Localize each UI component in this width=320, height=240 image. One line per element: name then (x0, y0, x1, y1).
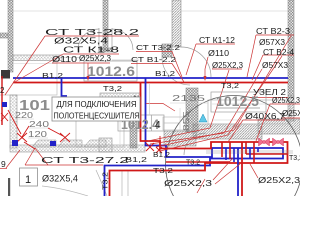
svg-text:Ø25X2,3: Ø25X2,3 (282, 109, 300, 118)
room box 1012.4 (118, 115, 164, 131)
svg-text:1: 1 (25, 174, 31, 186)
insulation triangle marker (199, 114, 207, 122)
svg-text:В1,2: В1,2 (42, 71, 63, 80)
svg-text:Ø25X2,3: Ø25X2,3 (212, 61, 244, 70)
blue fitting towel 2 (50, 141, 56, 146)
shaft wall band middle (193, 124, 262, 139)
wall left end cap (1, 70, 10, 79)
svg-text:Ø57X3: Ø57X3 (259, 38, 286, 47)
svg-text:1012.6: 1012.6 (87, 63, 135, 79)
svg-text:СТ К1-12: СТ К1-12 (199, 36, 236, 45)
leader line to box 1012.6 (112, 59, 139, 61)
door arc bathroom2 (184, 133, 206, 155)
bathroom1 wall vertical x=10 (10, 95, 17, 148)
svg-text:В1,2: В1,2 (125, 155, 147, 164)
svg-text:Ø25X2,3: Ø25X2,3 (258, 175, 300, 185)
bathroom2 wall vertical x=186 (186, 88, 198, 132)
svg-text:В1,2: В1,2 (155, 69, 175, 78)
bathtub room 1012.4 (76, 116, 124, 147)
towel radiator section 1 (32, 140, 56, 147)
bathtub room 1012.5 (208, 100, 290, 124)
room box 1012.6 (84, 61, 137, 81)
svg-text:СТ В1-2.2: СТ В1-2.2 (131, 55, 176, 64)
door frame bottom middle (122, 170, 128, 196)
pipe Т3 riser loop to node (110, 83, 288, 196)
dimension line 855 (179, 108, 181, 132)
shaft wall band left (164, 131, 196, 146)
svg-text:СТ В2-4: СТ В2-4 (263, 48, 295, 57)
ceiling line (13, 10, 288, 12)
detail box 1 (20, 168, 38, 186)
pier below wall B (162, 44, 172, 57)
dimension lines 220/240/120 (15, 119, 50, 138)
svg-text:В1,2: В1,2 (153, 150, 170, 159)
door arc right of wall A (112, 29, 133, 50)
pipe Т3 node vertical to bottom (241, 142, 243, 196)
svg-text:855: 855 (182, 110, 191, 131)
door arc at wall B (181, 47, 211, 77)
partition thin line extension (62, 57, 99, 59)
svg-text:СТ Т3-27.2: СТ Т3-27.2 (41, 155, 130, 165)
svg-text:120: 120 (28, 130, 48, 139)
svg-text:240: 240 (29, 120, 50, 129)
partition room 101 (0, 62, 57, 95)
detail circle УЗЕЛ 2 (166, 96, 303, 233)
pipe В1 node vertical to bottom (237, 148, 239, 196)
bathroom1 pier x=99 (99, 138, 112, 152)
svg-text:СТ В2-3: СТ В2-3 (256, 27, 291, 36)
door arc corridor (162, 57, 190, 85)
valve crosses at riser elbow (146, 136, 162, 153)
leader arrowhead 2 (204, 76, 207, 81)
svg-text:Ø25X2,3: Ø25X2,3 (272, 96, 300, 105)
svg-text:Ø25X2,3: Ø25X2,3 (79, 54, 112, 63)
svg-text:Т3,2: Т3,2 (186, 158, 200, 167)
door arc bottom-left (42, 186, 88, 196)
partition shelf line room 101 (13, 63, 57, 65)
svg-text:Т3,2: Т3,2 (103, 84, 122, 93)
svg-text:СТ Т3-2.2: СТ Т3-2.2 (136, 43, 180, 52)
blue fitting left edge (2, 102, 7, 107)
svg-text:Ø40X6,7: Ø40X6,7 (245, 112, 286, 121)
leader from marker 4 (164, 122, 180, 124)
note box (52, 97, 140, 121)
leader arrowhead 1 (87, 76, 90, 81)
svg-text:ДЛЯ ПОДКЛЮЧЕНИЯ: ДЛЯ ПОДКЛЮЧЕНИЯ (57, 100, 137, 109)
right wall vertical x=288 (288, 0, 294, 96)
wall A jamb lines (99, 28, 112, 51)
wall left vertical (8, 0, 13, 72)
svg-text:4: 4 (155, 120, 161, 131)
valve crosses towel connection (1, 110, 70, 149)
svg-text:220: 220 (15, 111, 34, 120)
shelf left of shaft (163, 117, 185, 130)
partition line near riser (149, 84, 151, 115)
svg-text:2135: 2135 (172, 94, 206, 103)
svg-text:Ø110: Ø110 (208, 49, 230, 58)
pipe В1 riser loop to node (105, 78, 284, 196)
right wall lower piece (288, 96, 294, 121)
manifold red drops (166, 142, 288, 163)
svg-text:Т3,2: Т3,2 (103, 172, 110, 190)
bathroom1 top wall segment (100, 93, 141, 100)
manifold blue drops (226, 148, 258, 162)
svg-text:Ø25X2,3: Ø25X2,3 (164, 178, 212, 188)
svg-text:Ø57X3: Ø57X3 (262, 61, 289, 70)
wall B vertical x=172 (172, 0, 181, 47)
riser Т3 left edge (1, 76, 3, 125)
wall left stub (0, 33, 8, 38)
bathroom1 wall vertical x=130 (130, 115, 137, 148)
valve pair on header (259, 138, 284, 146)
towel radiator section 2 (58, 140, 82, 147)
shaft wall band right (258, 119, 300, 134)
svg-text:9: 9 (1, 159, 6, 169)
svg-text:Т3,2: Т3,2 (221, 81, 239, 90)
underline 1012.5 (216, 107, 260, 109)
svg-text:Т3,2: Т3,2 (153, 166, 173, 175)
pipe В1 towel drop (62, 78, 68, 97)
door arc bottom-middle (96, 170, 107, 196)
towel radiator section 3 (84, 140, 106, 147)
dimension line 2135 (170, 102, 208, 104)
shaft edge double line (206, 151, 293, 153)
room box 1012.5 (211, 92, 266, 112)
bathroom1 wall band bottom (10, 145, 145, 152)
wall A vertical x=103 (103, 0, 108, 50)
svg-text:Ø32X5,4: Ø32X5,4 (42, 174, 78, 185)
svg-text:Ø110: Ø110 (52, 55, 78, 64)
svg-text:Ø32X5,4: Ø32X5,4 (54, 37, 109, 46)
divider of marker cell 4 (151, 115, 153, 131)
partition wall band room 101 (13, 55, 62, 61)
svg-text:2: 2 (0, 86, 5, 95)
blue fitting towel 1 (12, 140, 18, 146)
svg-text:ПОЛОТЕНЦЕСУШИТЕЛЯ: ПОЛОТЕНЦЕСУШИТЕЛЯ (54, 112, 140, 121)
leader lines red (0, 35, 300, 193)
door arc left of wall A (78, 29, 99, 50)
pipe Т3 hot water main (13, 82, 288, 84)
wall A end cap (99, 48, 112, 52)
pipe В1 cold water main (13, 77, 288, 79)
svg-text:Т3,2: Т3,2 (289, 153, 300, 162)
column edge bottom-left (8, 178, 10, 196)
